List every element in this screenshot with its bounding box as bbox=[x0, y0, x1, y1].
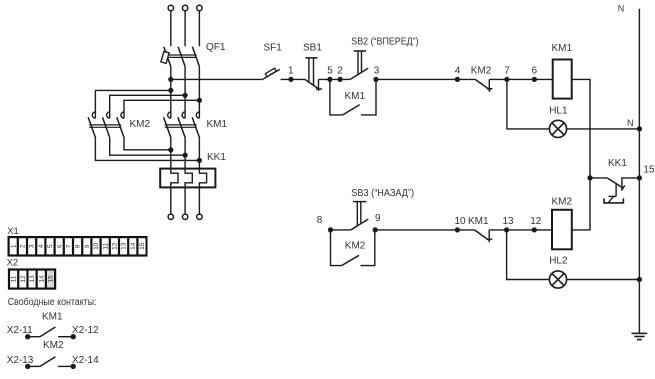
node 9 bbox=[373, 227, 378, 232]
svg-text:6: 6 bbox=[56, 244, 63, 248]
svg-text:X2: X2 bbox=[7, 257, 18, 268]
motor terminal 3 bbox=[197, 214, 202, 219]
svg-text:3: 3 bbox=[374, 66, 380, 77]
contactor KM2 main contacts bbox=[88, 112, 124, 138]
motor terminal 1 bbox=[168, 214, 173, 219]
svg-text:KM1: KM1 bbox=[345, 91, 366, 102]
lamp HL2 branch bbox=[507, 230, 550, 280]
wire KK1 to motor terminal 1 bbox=[170, 187, 172, 214]
node 2 bbox=[338, 77, 343, 82]
svg-text:2: 2 bbox=[20, 244, 27, 248]
wire L1 QF1 to KM1 bbox=[170, 67, 172, 119]
svg-text:X1: X1 bbox=[7, 225, 18, 236]
svg-text:8: 8 bbox=[317, 215, 323, 226]
wire coil KM1 to KK1 contact bbox=[572, 79, 590, 177]
wire L2 drop to QF1 bbox=[184, 11, 186, 46]
svg-text:7: 7 bbox=[504, 66, 510, 77]
svg-text:2: 2 bbox=[337, 66, 343, 77]
svg-text:5: 5 bbox=[47, 244, 54, 248]
phase terminal L2 bbox=[182, 5, 187, 10]
phase terminal L3 bbox=[197, 5, 202, 10]
auxiliary contact KM2 self-hold bbox=[331, 230, 375, 266]
node C3 bbox=[197, 158, 202, 163]
svg-text:SB1: SB1 bbox=[303, 43, 322, 54]
wire KM1 pole2 to KK1 bbox=[184, 138, 186, 169]
svg-text:SF1: SF1 bbox=[264, 43, 283, 54]
node 8 bbox=[328, 227, 333, 232]
node KM2 feed tap on L1 bbox=[168, 88, 173, 93]
node C1 bbox=[168, 147, 173, 152]
svg-text:HL1: HL1 bbox=[549, 106, 568, 117]
node KK1 left bbox=[587, 175, 592, 180]
svg-text:9: 9 bbox=[84, 244, 91, 248]
svg-text:1: 1 bbox=[288, 66, 294, 77]
contactor KM1 main contacts bbox=[164, 112, 200, 138]
ground bbox=[632, 333, 648, 339]
svg-text:11: 11 bbox=[102, 243, 109, 250]
node 6 bbox=[532, 77, 537, 82]
node N at HL1 bbox=[637, 126, 642, 131]
svg-text:KM2: KM2 bbox=[345, 241, 366, 252]
lamp HL1 bbox=[549, 120, 566, 137]
thermal relay KK1 heater box bbox=[160, 169, 215, 188]
svg-text:QF1: QF1 bbox=[206, 42, 226, 53]
node 15 bbox=[637, 175, 642, 180]
svg-text:HL2: HL2 bbox=[549, 256, 568, 267]
pushbutton SB3 backward bbox=[351, 202, 368, 230]
wire SF1 to node 1 bbox=[281, 78, 305, 80]
svg-text:8: 8 bbox=[75, 244, 82, 248]
wire KM2 pole2 to node C2 bbox=[110, 138, 185, 156]
svg-text:12: 12 bbox=[530, 216, 542, 227]
node N at HL2 bbox=[637, 277, 642, 282]
coil KM1 bbox=[553, 60, 572, 99]
KK1 heater element pole3 bbox=[199, 169, 206, 188]
node KM2 feed tap on L2 bbox=[183, 93, 188, 98]
KK1 heater element pole1 bbox=[171, 169, 178, 188]
wire L1 to KM2 pole1 bbox=[95, 90, 170, 118]
node control tap on L1 bbox=[168, 77, 173, 82]
wire L1 drop to QF1 bbox=[170, 11, 172, 46]
wire KM2 pole3 to node C1 bbox=[124, 138, 171, 150]
svg-text:SB2 (“ВПЕРЕД”): SB2 (“ВПЕРЕД”) bbox=[351, 37, 418, 48]
break contact KM1 interlock bbox=[474, 230, 492, 242]
svg-text:15: 15 bbox=[48, 275, 55, 283]
node 10 bbox=[455, 227, 460, 232]
svg-text:12: 12 bbox=[20, 275, 27, 283]
wire coil KM2 to KK1 contact bbox=[572, 178, 590, 230]
motor terminal 2 bbox=[182, 214, 187, 219]
wire HL2 to N bus bbox=[567, 279, 640, 281]
node 5 bbox=[327, 77, 332, 82]
wire node 9 to node 10 bbox=[375, 229, 474, 231]
wire L3 QF1 to KM1 bbox=[198, 67, 200, 119]
node 4 bbox=[455, 77, 460, 82]
free contact KM2 bbox=[25, 357, 76, 369]
wire SB1 to nodes 5 2 bbox=[319, 78, 351, 80]
KK1 trip actuator bbox=[604, 184, 623, 203]
coil KM2 bbox=[552, 210, 572, 250]
svg-text:N: N bbox=[627, 118, 634, 128]
wire KK1 to motor terminal 3 bbox=[198, 187, 200, 214]
svg-text:13: 13 bbox=[503, 216, 515, 227]
svg-text:6: 6 bbox=[532, 66, 538, 77]
svg-text:5: 5 bbox=[327, 66, 333, 77]
N bus bbox=[638, 9, 640, 334]
svg-text:3: 3 bbox=[29, 244, 36, 248]
node 3 bbox=[373, 77, 378, 82]
wire HL1 to N bus bbox=[567, 128, 640, 130]
svg-text:15: 15 bbox=[643, 165, 655, 176]
phase terminal L1 bbox=[168, 5, 173, 10]
breaker SF1 bbox=[263, 68, 280, 79]
wire L3 to KM2 pole3 bbox=[124, 100, 199, 118]
svg-text:X2-12: X2-12 bbox=[72, 325, 99, 336]
auxiliary contact KM1 self-hold bbox=[330, 79, 376, 115]
svg-text:X2-13: X2-13 bbox=[7, 355, 34, 366]
terminal block X1 bbox=[8, 236, 148, 257]
svg-text:KM2: KM2 bbox=[130, 119, 151, 130]
node C2 bbox=[183, 153, 188, 158]
free contact KM1 bbox=[25, 327, 76, 339]
pushbutton SB1 stop bbox=[305, 58, 322, 91]
svg-text:13: 13 bbox=[29, 275, 36, 283]
pushbutton SB2 forward bbox=[350, 51, 368, 79]
node 1 bbox=[288, 77, 293, 82]
KK1 heater element pole2 bbox=[185, 169, 192, 188]
svg-text:KK1: KK1 bbox=[207, 152, 226, 163]
svg-text:KM2: KM2 bbox=[471, 66, 492, 77]
svg-text:15: 15 bbox=[139, 242, 146, 250]
svg-text:KK1: KK1 bbox=[608, 158, 627, 169]
svg-text:4: 4 bbox=[455, 66, 461, 77]
svg-text:KM1: KM1 bbox=[468, 216, 489, 227]
svg-text:KM1: KM1 bbox=[207, 119, 228, 130]
svg-text:13: 13 bbox=[121, 242, 128, 250]
svg-text:X2-14: X2-14 bbox=[72, 355, 99, 366]
wire KM2 interlock to coil KM1 bbox=[489, 78, 552, 80]
thermal contact KK1 bbox=[590, 178, 639, 191]
svg-text:KM2: KM2 bbox=[552, 197, 573, 208]
svg-text:10: 10 bbox=[93, 242, 100, 250]
wire KM2 pole1 to node C3 bbox=[95, 138, 199, 161]
wire L2 to KM2 pole2 bbox=[110, 95, 185, 118]
wire L1 tap to SF1 bbox=[171, 78, 263, 80]
svg-text:4: 4 bbox=[38, 244, 45, 248]
svg-text:12: 12 bbox=[112, 242, 119, 250]
node 13 bbox=[504, 227, 509, 232]
wire KK1 to motor terminal 2 bbox=[184, 187, 186, 214]
svg-text:11: 11 bbox=[11, 275, 18, 282]
wire L3 drop to QF1 bbox=[198, 11, 200, 46]
svg-text:1: 1 bbox=[10, 244, 17, 248]
wire L2 QF1 to KM1 bbox=[184, 67, 186, 119]
wire node 8 to SB3 bbox=[331, 229, 351, 231]
svg-text:14: 14 bbox=[38, 275, 45, 283]
wire KM1 interlock to coil KM2 bbox=[489, 229, 552, 231]
svg-text:N: N bbox=[618, 3, 625, 13]
svg-text:KM2: KM2 bbox=[43, 340, 64, 351]
svg-text:10: 10 bbox=[455, 216, 467, 227]
lamp HL2 bbox=[549, 271, 566, 288]
wire node 3 to node 4 bbox=[376, 78, 475, 80]
circuit breaker QF1 bbox=[161, 47, 200, 67]
node 7 bbox=[504, 77, 509, 82]
svg-text:9: 9 bbox=[375, 213, 381, 224]
svg-text:7: 7 bbox=[66, 244, 73, 248]
lamp HL1 branch bbox=[507, 79, 550, 128]
terminal block X2 bbox=[8, 268, 56, 289]
node 12 bbox=[532, 227, 537, 232]
svg-text:14: 14 bbox=[130, 242, 137, 250]
svg-text:Свободные контакты:: Свободные контакты: bbox=[8, 296, 97, 308]
wire KM1 pole1 to KK1 bbox=[170, 138, 172, 169]
node KM2 feed tap on L3 bbox=[197, 98, 202, 103]
svg-text:KM1: KM1 bbox=[552, 43, 573, 54]
break contact KM2 interlock bbox=[475, 79, 492, 92]
wire KM1 pole3 to KK1 bbox=[198, 138, 200, 169]
svg-text:SB3 (“НАЗАД”): SB3 (“НАЗАД”) bbox=[351, 188, 414, 199]
svg-text:KM1: KM1 bbox=[42, 311, 63, 322]
